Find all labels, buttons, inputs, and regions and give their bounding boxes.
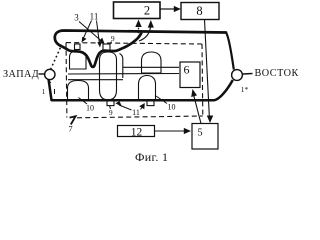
foot square 1 under capsule <box>107 101 114 106</box>
dome lower-right <box>139 76 156 100</box>
thick main loop line (top line, left cap, meander over peaks) <box>55 31 226 67</box>
box 2 <box>114 2 161 19</box>
dotted arrow up to box 2 <box>135 20 141 38</box>
dashed boundary 7 <box>66 43 203 118</box>
arrowhead on west diagonal pointing to circle <box>48 80 52 84</box>
square 9 left <box>75 44 81 50</box>
svg-text:6: 6 <box>184 63 190 77</box>
svg-text:8: 8 <box>196 4 202 18</box>
square 9 right (on capsule top) <box>103 44 110 52</box>
svg-text:11: 11 <box>132 108 140 117</box>
label 7 with bold leader mark <box>68 116 75 133</box>
east station circle 1* <box>232 70 243 81</box>
svg-text:1*: 1* <box>241 85 249 94</box>
svg-text:10: 10 <box>168 103 176 112</box>
label 11 with leaders to square 9 left and dip <box>82 12 102 48</box>
svg-text:1: 1 <box>42 88 46 96</box>
arrowhead into box 5 top <box>207 116 213 124</box>
label 3 with leader to square 9 right <box>74 13 104 44</box>
tick to ЗАПАД <box>39 73 46 75</box>
dome upper-left <box>70 51 87 69</box>
dome upper-right <box>142 52 162 73</box>
svg-text:7: 7 <box>68 124 72 134</box>
label 11 bottom with two arrows to feet <box>115 101 145 117</box>
arrow box2 to box8 <box>161 6 181 12</box>
svg-text:9: 9 <box>109 108 113 117</box>
dotted line from west circle up to loop <box>51 48 61 70</box>
box 6 <box>180 62 200 88</box>
box 8 <box>181 3 219 20</box>
svg-text:5: 5 <box>197 128 202 139</box>
svg-text:9: 9 <box>111 34 115 43</box>
svg-text:12: 12 <box>131 126 143 138</box>
wire top-right diagonal down to east station <box>226 33 234 70</box>
arrow from box5 up to box 6 <box>194 95 201 124</box>
west station circle 1 <box>45 69 55 79</box>
small dash right of label 1 <box>54 89 56 94</box>
bottom thick route line <box>49 79 233 100</box>
svg-text:11: 11 <box>90 12 99 22</box>
thin horizontal pipe lines <box>68 73 179 76</box>
svg-text:Фиг. 1: Фиг. 1 <box>135 150 168 164</box>
arrow box 12 to box 5 <box>155 128 192 134</box>
label 10 left with leader <box>79 98 95 113</box>
curved solid arrow up to box 2 <box>139 20 154 41</box>
dome lower-left <box>68 81 89 100</box>
wire from box 8 down to box 5 <box>205 20 210 121</box>
tick to ВОСТОК <box>243 73 253 76</box>
svg-text:2: 2 <box>144 4 150 18</box>
box 12 <box>118 126 155 139</box>
label 10 right with leader <box>156 96 176 112</box>
label 9 bottom with leader <box>109 106 113 117</box>
capsule middle <box>100 52 117 100</box>
svg-text:3: 3 <box>74 13 79 23</box>
box 5 <box>192 124 218 150</box>
svg-text:ЗАПАД: ЗАПАД <box>3 69 39 80</box>
foot square 2 under right dome <box>147 101 154 106</box>
svg-text:ВОСТОК: ВОСТОК <box>255 68 299 79</box>
svg-text:10: 10 <box>86 104 94 113</box>
label 9 top with tiny leader <box>110 34 115 44</box>
